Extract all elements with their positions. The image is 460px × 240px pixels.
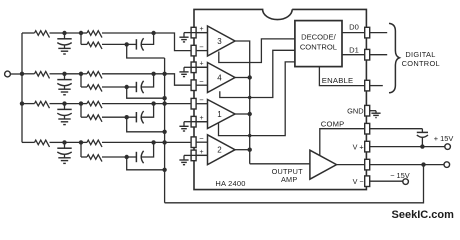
wire row 1 RA to node A — [50, 31, 67, 35]
svg-text:V −: V − — [353, 177, 364, 186]
pin ENABLE — [319, 67, 382, 91]
op-amp U2 — [208, 135, 236, 165]
IC package HA2400 outline — [194, 9, 366, 189]
capacitor C1A shunt to ground — [57, 33, 71, 54]
wire row 3 node B drop — [81, 104, 87, 118]
resistor R4A — [35, 140, 50, 147]
resistor R4B — [87, 140, 102, 147]
node feedback row 4 minus — [162, 140, 166, 144]
terminal output — [444, 162, 450, 168]
svg-text:GND: GND — [347, 107, 363, 116]
capacitor C1B coupling — [136, 38, 143, 50]
wire row 3 node B upper — [81, 103, 87, 105]
pin output — [337, 159, 445, 170]
wire row 3 cap riser to node C — [141, 104, 153, 118]
node U4 select crossing — [248, 96, 251, 99]
pin D0 — [342, 27, 387, 38]
wire U1 plus to ground — [184, 121, 191, 123]
label GND — [347, 107, 363, 116]
svg-text:SeekIC.com: SeekIC.com — [392, 209, 455, 221]
node U2 output — [235, 148, 252, 152]
wire row 4 RB to node C — [102, 140, 156, 144]
svg-text:+: + — [199, 61, 203, 68]
node feedback row 3 minus — [162, 101, 166, 105]
wire row 4 node D to cap — [127, 156, 137, 158]
resistor R1B — [87, 31, 102, 38]
label OUTPUT AMP — [272, 167, 304, 184]
wire row 1 cap riser to node C — [141, 33, 153, 44]
wire row 2 RA to node A — [50, 72, 67, 76]
wire row 4 RA to node A — [50, 140, 67, 144]
op-amp U1 minus input pin — [191, 96, 207, 110]
wire row 3 RC to node D — [102, 115, 129, 119]
wire row 2 main left — [22, 73, 35, 75]
resistor R4C — [87, 155, 102, 162]
op-amp U4 — [208, 63, 236, 93]
op-amp U4 minus input pin — [191, 77, 207, 91]
node U1 output — [235, 112, 252, 116]
wire feedback bus vertical — [164, 58, 166, 203]
label V- — [353, 177, 364, 186]
label -15V — [390, 171, 410, 180]
label D0 — [349, 22, 359, 31]
wire row 1 node D to cap — [127, 43, 137, 45]
wire U4 select line — [220, 50, 295, 97]
wire U2 plus to ground — [184, 154, 191, 156]
svg-text:HA 2400: HA 2400 — [215, 179, 245, 188]
wire row 1 node A to node B — [65, 31, 84, 35]
wire input bus vertical — [21, 33, 23, 142]
svg-text:D1: D1 — [349, 46, 359, 55]
wire row 1 RC to node D — [102, 42, 129, 46]
capacitor C2A shunt to ground — [57, 74, 71, 95]
wire row 2 cap riser to node C — [141, 74, 153, 87]
pin D1 — [342, 49, 387, 60]
capacitor C comp — [417, 129, 428, 149]
wire U3 plus to ground — [184, 32, 191, 34]
svg-text:1: 1 — [217, 110, 222, 119]
wire row 2 RB to node C — [102, 72, 156, 76]
wire row 3 node A to node B — [65, 101, 84, 105]
terminal +15V — [445, 144, 451, 150]
op-amp U3 plus input pin — [191, 26, 207, 38]
node U4 output — [235, 75, 252, 79]
wire row 2 node B upper — [81, 73, 87, 75]
capacitor C4B coupling — [136, 151, 143, 163]
svg-text:ENABLE: ENABLE — [322, 76, 354, 85]
resistor R1C — [87, 42, 102, 49]
op-amp output amp — [310, 150, 337, 179]
svg-text:CONTROL: CONTROL — [300, 42, 337, 51]
resistor R2A — [35, 72, 50, 79]
pin COMP — [320, 123, 423, 156]
op-amp U2 minus input pin — [191, 134, 207, 148]
node feedback row 2 minus — [162, 72, 166, 76]
svg-text:+ 15V: + 15V — [434, 134, 454, 143]
pin GND — [365, 105, 376, 116]
wire row 1 RB to node C — [102, 31, 156, 35]
wire row 2 node C to op-amp minus input — [154, 74, 197, 85]
node U1 select crossing — [248, 134, 251, 137]
ground U4 plus input — [179, 67, 188, 76]
ground U1 plus input — [179, 122, 188, 131]
wire row 3 node D to cap — [127, 116, 137, 118]
svg-text:2: 2 — [217, 146, 222, 155]
wire U3 select line — [219, 39, 295, 63]
wire row 4 main left — [22, 141, 35, 143]
op-amp U1 plus input pin — [191, 115, 207, 127]
capacitor C3B coupling — [136, 111, 143, 123]
resistor R3B — [87, 101, 102, 108]
ground U3 plus input — [179, 33, 188, 42]
wire U1 select line — [219, 62, 295, 136]
wire feedback bottom — [165, 165, 424, 203]
wire row 1 node D feedback leg — [127, 44, 165, 58]
svg-text:D0: D0 — [349, 22, 359, 31]
node feedback row 2 leg — [162, 96, 166, 100]
wire row 2 node D to cap — [127, 86, 137, 88]
wire row 4 node B upper — [81, 141, 87, 143]
label D1 — [349, 46, 359, 55]
watermark SeekIC.com — [392, 209, 455, 221]
svg-text:3: 3 — [217, 37, 222, 46]
resistor R2B — [87, 72, 102, 79]
wire row 1 node B drop — [81, 33, 87, 44]
wire row 4 node A to node B — [65, 140, 84, 144]
wire row 1 main left — [22, 32, 35, 34]
wire row 1 node B upper — [81, 32, 87, 34]
wire row 3 RA to node A — [50, 101, 67, 105]
pin V- — [365, 176, 403, 187]
capacitor C3A shunt to ground — [57, 104, 71, 125]
input terminal J1 — [5, 71, 11, 77]
op-amp U3 minus input pin — [191, 42, 207, 56]
wire row 4 cap riser to node C — [141, 142, 153, 157]
op-amp U4 plus input pin — [191, 61, 207, 73]
node input bus row 2 — [20, 72, 24, 76]
wire row 2 node A to node B — [65, 72, 84, 76]
decode control block — [295, 21, 342, 67]
wire row 2 node B drop — [81, 74, 87, 87]
svg-text:− 15V: − 15V — [390, 171, 410, 180]
svg-text:AMP: AMP — [281, 175, 297, 184]
capacitor C4A shunt to ground — [57, 142, 71, 163]
resistor R1A — [35, 31, 50, 38]
op-amp U2 plus input pin — [191, 149, 207, 161]
svg-text:DECODE/: DECODE/ — [301, 33, 336, 42]
label +15V — [434, 134, 454, 143]
wire row 3 node D feedback leg — [127, 117, 165, 132]
wire row 2 RC to node D — [102, 85, 129, 89]
capacitor C2B coupling — [136, 81, 143, 93]
svg-text:4: 4 — [217, 73, 222, 82]
brace digital control — [389, 23, 399, 92]
wire op-amp U3 output — [235, 41, 250, 164]
wire U4 plus to ground — [184, 66, 191, 68]
wire row 4 RC to node D — [102, 155, 129, 159]
wire input terminal to bus — [10, 73, 22, 75]
op-amp U3 — [208, 26, 236, 56]
svg-text:DIGITAL: DIGITAL — [405, 50, 435, 59]
resistor R3C — [87, 115, 102, 122]
wire row 3 main left — [22, 103, 35, 105]
label V+ — [353, 142, 364, 151]
wire row 4 node D feedback leg — [127, 157, 165, 170]
wire row 1 node C to op-amp minus input — [154, 33, 197, 51]
label ENABLE — [322, 76, 354, 85]
ground U2 plus input — [179, 155, 188, 164]
wire output bus to output amp — [250, 163, 310, 165]
wire row 4 node B drop — [81, 142, 87, 157]
svg-text:CONTROL: CONTROL — [402, 59, 440, 68]
wire row 3 RB to node C — [102, 101, 156, 105]
svg-text:V +: V + — [353, 142, 364, 151]
node feedback row 4 leg — [162, 168, 166, 172]
label DIGITAL CONTROL — [402, 50, 440, 68]
resistor R2C — [87, 85, 102, 92]
op-amp U1 — [208, 100, 236, 129]
node feedback row 3 leg — [162, 130, 166, 134]
wire row 2 node D feedback leg — [127, 87, 165, 98]
pin V+ — [365, 141, 445, 152]
resistor R3A — [35, 101, 50, 108]
terminal -15V — [403, 179, 409, 185]
wire row 3 node C to op-amp minus input — [154, 103, 197, 105]
label COMP — [321, 119, 345, 128]
svg-text:COMP: COMP — [321, 119, 345, 128]
wire row 4 node C to op-amp minus input — [154, 141, 197, 143]
node input bus row 3 — [20, 101, 24, 105]
ground GND pin — [371, 111, 380, 118]
label HA 2400 — [215, 179, 245, 188]
